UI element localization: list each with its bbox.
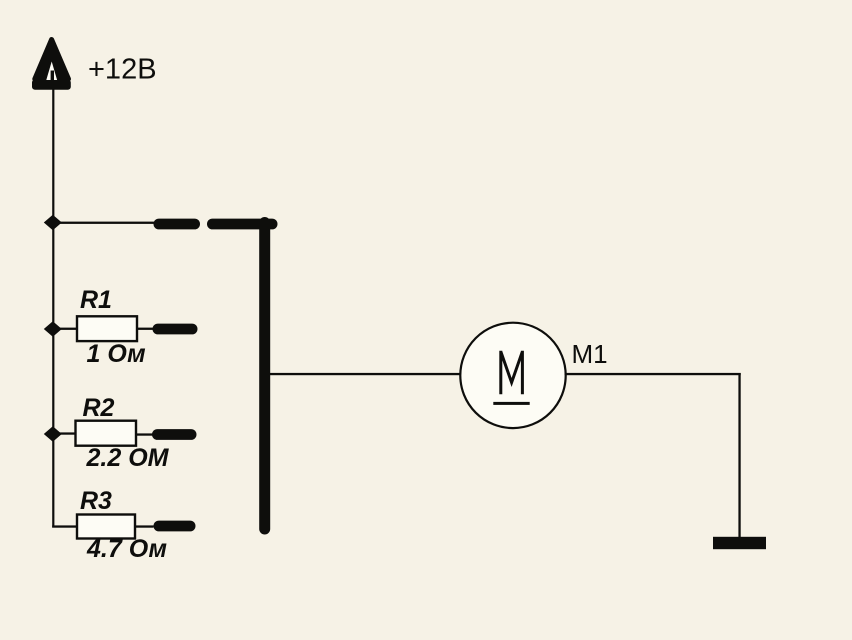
resistor R1 [77, 316, 137, 341]
svg-text:R1: R1 [80, 286, 112, 314]
motor M1 [460, 323, 565, 428]
wire: junction to R2 [52, 432, 77, 434]
wire: junction to switch pole [52, 222, 155, 224]
wire: junction to R1 [52, 328, 78, 330]
svg-text:+12В: +12В [88, 54, 157, 86]
switch contact position 3 [154, 521, 196, 532]
wire: down to ground [738, 373, 740, 538]
wire: R3 to contact [135, 525, 154, 527]
switch contact position 2 [152, 429, 197, 440]
wire: main vertical bus from +12V down to R3 [52, 88, 54, 528]
svg-text:1 Ом: 1 Ом [87, 340, 146, 368]
wire: switch bar to motor [268, 373, 462, 375]
resistor R3 [77, 515, 135, 539]
ground [713, 537, 766, 549]
switch contact position 1 [153, 324, 198, 335]
svg-text:M1: M1 [572, 339, 608, 369]
node A: switch feed junction [44, 215, 62, 230]
svg-text:2.2 ОМ: 2.2 ОМ [86, 444, 170, 472]
wire: R1 to contact [137, 328, 154, 330]
svg-text:R2: R2 [83, 394, 115, 422]
resistor R2 [76, 421, 137, 446]
svg-text:R3: R3 [80, 487, 112, 515]
node: R2 junction [44, 426, 62, 441]
svg-text:4.7 Ом: 4.7 Ом [86, 535, 167, 563]
power symbol +12V [32, 40, 71, 90]
node: R1 junction [44, 321, 62, 336]
wire: bus corner to R3 [52, 525, 77, 527]
switch common bar [259, 217, 270, 535]
wire: R2 to contact [136, 433, 154, 435]
switch pole contact [154, 219, 201, 230]
switch throw contact position 0 [207, 219, 278, 230]
wire: motor to right corner [565, 373, 741, 375]
